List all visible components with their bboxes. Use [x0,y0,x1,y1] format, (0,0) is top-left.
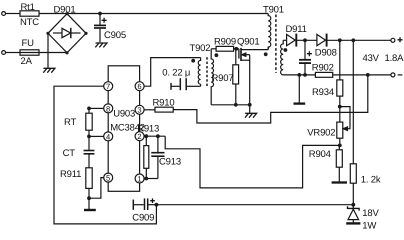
wire [296,39,317,41]
svg-text:RT: RT [64,117,76,128]
potentiometer VR902 [307,107,350,139]
pin 2 [135,132,144,141]
node pin4 rail [87,135,91,139]
terminal AC input bottom [2,51,6,55]
node output cap + [303,38,307,42]
svg-text:1: 1 [137,174,141,183]
T901 primary phase dot [264,52,268,56]
resistor 1.2k [350,40,381,204]
node cap bottom [303,73,307,77]
wire [39,52,67,54]
pin 5 [104,173,113,182]
node R934 top [338,38,342,42]
svg-text:T902: T902 [190,43,211,54]
pin 7 [104,82,113,91]
node VR902 wiper branch [338,105,342,109]
wire [6,52,21,54]
ground bar [294,102,306,104]
wire [39,13,268,15]
resistor R934 [312,40,343,122]
svg-text:VR902: VR902 [307,127,335,138]
T902 left winding [198,58,200,85]
resistor Rt1 [20,2,39,28]
wire [283,39,287,41]
svg-text:R909: R909 [214,36,236,47]
node 1.2k top [351,38,355,42]
svg-text:8: 8 [106,104,110,113]
wire T901 primary bottom [267,47,269,50]
ground bar R911 [84,209,96,211]
wire pin2 staircase to VR902 bottom [165,136,340,188]
svg-text:0. 22 μ: 0. 22 μ [162,68,190,79]
capacitor C905 [94,14,126,43]
svg-text:R910: R910 [153,98,175,109]
capacitor output electrolytic [299,40,312,75]
svg-text:D911: D911 [286,24,307,35]
transformer T902 [190,43,219,105]
node C913 top [156,134,160,138]
resistor R902 [312,62,334,77]
svg-text:T901: T901 [263,4,284,15]
capacitor 0.22u [162,68,200,91]
transformer T901 [263,4,287,75]
svg-text:Q901: Q901 [237,36,259,47]
resistor R911 [60,168,92,198]
node R911 bottom [87,196,91,200]
svg-text:D901: D901 [54,5,76,16]
T901 secondary winding [281,40,284,75]
node R909 gate [234,47,238,51]
pin 4 [104,132,113,141]
pin 3 [135,105,144,114]
node pin8 rail [87,107,91,111]
svg-text:R934: R934 [312,87,334,98]
svg-text:1W: 1W [362,220,376,231]
wire pin2 [144,135,165,137]
capacitor C913 [151,136,181,178]
wire minus rail [333,74,391,76]
wire [88,198,90,209]
svg-text:2A: 2A [21,56,33,67]
svg-text:Rt1: Rt1 [21,2,35,13]
T902 right winding [211,49,213,105]
node R907 bottom [234,103,238,107]
bridge rectifier D901 [46,5,87,55]
svg-text:7: 7 [106,82,110,91]
node ground tap [297,73,301,77]
wire pin6 to T902 [144,58,201,87]
resistor R909 [211,36,236,51]
svg-text:3: 3 [137,106,141,115]
wire pin5 to ground rail [89,178,104,199]
wire pin1 [144,178,158,180]
resistor R910 [144,98,174,113]
node Q901 source [248,103,252,107]
svg-text:R904: R904 [309,149,331,160]
resistor R913 [137,123,159,178]
wire [298,75,300,103]
T901 primary winding [268,14,271,50]
zener diode 18V 1W [346,205,379,232]
diode D908 [315,34,337,59]
svg-text:6: 6 [137,82,141,91]
wire secondary bottom [283,74,315,76]
svg-text:R913: R913 [137,123,159,134]
terminal - output [391,73,402,77]
node C909 [155,203,159,207]
T901 secondary phase dot [284,48,288,52]
svg-text:C905: C905 [104,30,126,41]
node R913 top [144,134,148,138]
node pin1 R913 [144,177,148,181]
fuse FU 2A [20,38,39,67]
wire pin7 Vcc loop [54,86,156,224]
node minus branch [366,73,370,77]
wire [249,105,251,113]
wire source ground rail [211,104,250,106]
svg-text:NTC: NTC [20,17,39,28]
T902 core [206,57,208,86]
T902 right phase dot [215,53,219,57]
svg-text:43V: 43V [363,53,380,64]
wire C909 to zener [156,204,353,206]
T902 left phase dot [191,59,195,63]
svg-text:1. 2k: 1. 2k [361,175,381,186]
node C905 top [98,12,102,16]
ground [43,68,55,72]
node VR902 bottom [338,144,342,148]
ground [245,113,257,117]
ground [95,43,107,47]
ground bar R904 [332,181,347,183]
capacitor CT [63,136,95,167]
pin 8 [104,104,113,113]
node zener top [351,203,355,207]
terminal AC input top [2,12,6,16]
svg-text:C909: C909 [132,213,154,224]
wire pin8 [89,107,104,109]
resistor R907 [212,49,239,105]
svg-text:R911: R911 [60,169,81,180]
wire pin4 [89,135,104,137]
svg-text:FU: FU [22,38,35,49]
wire [47,33,49,68]
IC U903 MC3842 body [108,66,145,192]
transistor Q901 [236,36,268,104]
T901 core [275,15,277,74]
terminal + output [391,37,403,42]
svg-text:CT: CT [63,148,76,159]
capacitor C909 [132,198,156,223]
svg-text:4: 4 [106,132,110,141]
svg-text:C913: C913 [159,157,181,168]
wire R910 feedback to minus rail [173,75,368,123]
svg-text:1.8A: 1.8A [385,53,404,64]
wire [326,39,391,41]
svg-text:D908: D908 [315,48,337,59]
svg-text:R907: R907 [212,73,234,84]
svg-text:R902: R902 [312,62,334,73]
svg-text:U903: U903 [113,108,135,119]
wire [6,13,21,15]
svg-text:5: 5 [106,174,110,183]
resistor RT [64,108,92,136]
wire [339,138,341,145]
pin 6 [135,82,144,91]
pin 1 [135,174,144,183]
svg-text:18V: 18V [362,208,379,219]
diode D911 [286,24,307,46]
resistor R904 [309,145,343,181]
